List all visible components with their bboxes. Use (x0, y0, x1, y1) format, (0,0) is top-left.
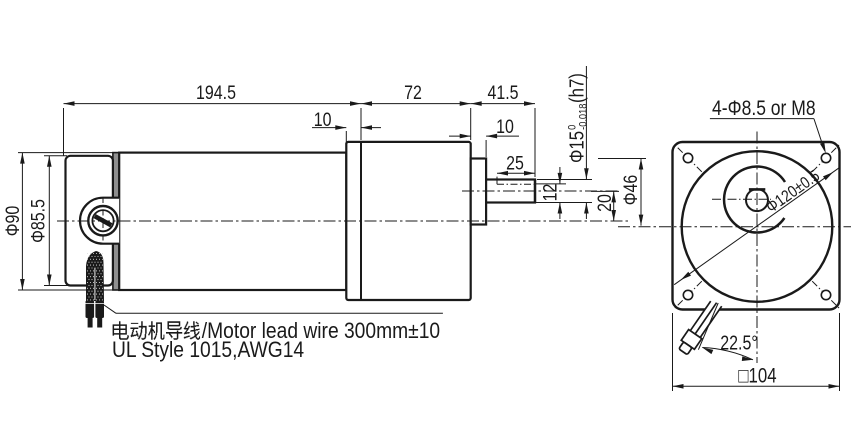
dimension 25 key flat (496, 177, 498, 185)
terminal cover bulge (80, 198, 119, 244)
inner C arc of gearbox face (724, 167, 785, 233)
wire exit axis line 22.5 deg (698, 303, 718, 350)
screw terminal outer circle (88, 206, 117, 235)
svg-text:41.5: 41.5 (487, 82, 518, 104)
motor axis centerline (57, 220, 631, 222)
svg-text:25: 25 (506, 152, 524, 174)
shaft end face (534, 179, 536, 203)
motor body (119, 153, 346, 290)
dimension Φ85.5 (44, 155, 67, 157)
svg-text:Φ85.5: Φ85.5 (27, 199, 49, 243)
dimension 41.5 (470, 108, 472, 140)
output shaft Φ15 (486, 180, 535, 203)
dimension 72 (361, 103, 471, 105)
dimension Φ90 (18, 152, 119, 154)
terminal centerline (102, 197, 104, 245)
svg-text:(h7): (h7) (565, 73, 588, 103)
svg-text:□104: □104 (738, 365, 777, 388)
wire crimp connectors (86, 301, 95, 319)
dimension 20 (591, 190, 619, 192)
shaft key flat (497, 183, 535, 185)
svg-text:Φ15: Φ15 (565, 131, 588, 163)
joint ring between end cap and body (113, 153, 119, 290)
gearbox face circle (682, 151, 833, 302)
screw terminal inner circle (92, 210, 113, 231)
front view horizontal centerline (618, 226, 851, 228)
dimension 10 rear flange (345, 131, 347, 150)
lead wire label text CJK 电动机导线 (113, 321, 129, 339)
braid speckles (87, 253, 103, 301)
shaft horizontal centerline (712, 198, 771, 200)
dimension 12 (536, 183, 566, 185)
front wire connector (676, 330, 701, 357)
lead wire label leader (104, 305, 116, 313)
lead wires side view (86, 251, 104, 301)
shaft circle with key flat front view (746, 189, 768, 211)
end cap Φ85.5 (66, 156, 113, 286)
screw slot (94, 214, 113, 227)
svg-text:10: 10 (314, 109, 332, 131)
svg-text:194.5: 194.5 (196, 82, 236, 104)
dimension square 104 (672, 313, 674, 391)
dimension 194.5 (63, 108, 65, 156)
corner hole diagonals (674, 144, 702, 172)
svg-text:Φ46: Φ46 (620, 175, 642, 205)
shaft centerline (462, 190, 618, 192)
bearing boss Φ46 (471, 159, 486, 225)
svg-text:10: 10 (496, 116, 514, 138)
svg-text:4-Φ8.5 or M8: 4-Φ8.5 or M8 (712, 96, 816, 120)
dimension Φ120 bolt circle (674, 167, 840, 284)
front lead wires (690, 301, 721, 337)
front view vertical centerline (756, 132, 758, 364)
angle arc 22.5 (702, 348, 753, 360)
svg-text:22.5°: 22.5° (720, 332, 758, 354)
svg-text:20: 20 (594, 194, 616, 212)
dimension Φ46 (598, 158, 646, 160)
svg-text:72: 72 (404, 82, 422, 104)
svg-text:Φ90: Φ90 (2, 206, 24, 237)
mounting flange square 104 (673, 142, 840, 310)
gearbox housing (346, 142, 470, 300)
dimension 10 boss (485, 140, 487, 157)
svg-text:12: 12 (539, 184, 561, 202)
svg-text:-0.018: -0.018 (578, 103, 590, 129)
svg-text:UL Style 1015,AWG14: UL Style 1015,AWG14 (112, 338, 304, 362)
gearbox rear flange line (360, 142, 362, 300)
dimension Φ15 h7 (537, 179, 592, 181)
mounting holes 4-Φ8.5 (683, 153, 692, 162)
